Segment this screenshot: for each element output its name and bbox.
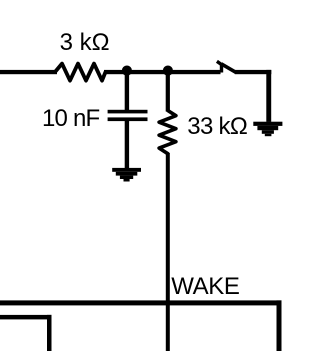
svg-text:3 kΩ: 3 kΩ (60, 29, 110, 56)
capacitor 10 nF bottom plate (108, 117, 148, 121)
ground symbol (below capacitor) (112, 168, 141, 182)
wire: switch to right corner (235, 70, 271, 74)
wire: 33k resistor down to WAKE pin, continuing into block (166, 153, 170, 351)
IC block outline (right edge) (277, 300, 282, 351)
wire: capacitor bottom plate down to ground (125, 121, 129, 168)
resistor 33 kOhm (vertical zigzag) (159, 111, 176, 154)
node junction dot B (top of 33k resistor) (163, 66, 173, 76)
wire: node B down to 33k resistor (166, 72, 170, 112)
capacitor 10 nF top plate (108, 110, 148, 114)
svg-text:WAKE: WAKE (171, 273, 239, 300)
wire: node A down to capacitor top plate (125, 72, 129, 110)
wire: input lead from left edge to 3k resistor (0, 70, 57, 74)
IC block outline (top edge) (0, 300, 282, 305)
wire: from 3k resistor to switch, through nodes (104, 70, 221, 74)
svg-text:33 kΩ: 33 kΩ (187, 113, 247, 140)
ground symbol (right, below switch) (253, 122, 282, 137)
wire: right corner down to ground (266, 70, 271, 122)
node junction dot A (top of capacitor) (122, 66, 132, 76)
resistor 3 kOhm (horizontal zigzag) (55, 64, 106, 81)
inner block outline (right edge) (47, 315, 52, 351)
inner block outline (top edge) (0, 315, 52, 320)
svg-text:10 nF: 10 nF (42, 105, 100, 132)
switch S1 (open switch in top wire) (217, 61, 236, 72)
